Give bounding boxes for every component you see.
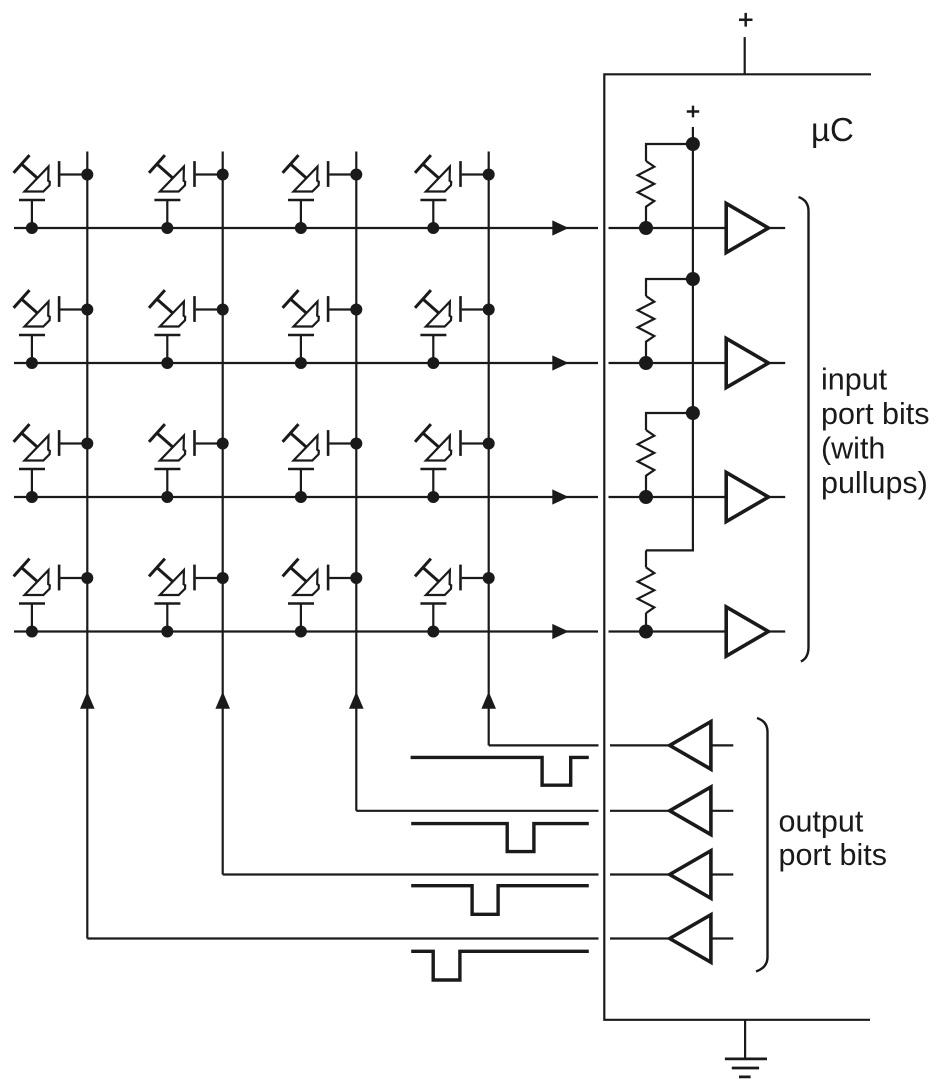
svg-text:(with: (with bbox=[821, 431, 885, 465]
row 3 wire inside uC bbox=[609, 496, 727, 498]
svg-text:pullups): pullups) bbox=[821, 466, 928, 500]
switch S33 bbox=[283, 424, 363, 503]
pullup resistor R2 bbox=[638, 296, 655, 342]
switch S31 bbox=[14, 424, 94, 503]
pullup resistor R4 bbox=[638, 567, 655, 613]
ground symbol bbox=[725, 1059, 767, 1077]
up arrowhead column 4 bbox=[481, 692, 496, 709]
switch S41 bbox=[14, 559, 94, 638]
output buffer 4 bbox=[670, 915, 711, 963]
switch S14 bbox=[415, 155, 495, 234]
svg-text:µC: µC bbox=[811, 111, 854, 148]
switch S13 bbox=[283, 155, 363, 234]
output wire 1 (col4) bbox=[489, 744, 599, 746]
pullup resistor R2 branch bbox=[646, 279, 693, 296]
node dot row 1 bbox=[639, 221, 653, 235]
switch S44 bbox=[415, 559, 495, 638]
switch S21 bbox=[14, 290, 94, 369]
pullup resistor R1 bbox=[638, 161, 655, 207]
node dot row 3 bbox=[639, 490, 653, 504]
output buffer 1 stub bbox=[711, 744, 733, 746]
row 4 wire bbox=[14, 630, 598, 632]
output wire 2 inside uC bbox=[610, 810, 670, 812]
node dot row 4 bbox=[639, 625, 653, 639]
column 3 wire bbox=[355, 152, 357, 811]
switch S11 bbox=[14, 155, 94, 234]
switch S34 bbox=[415, 424, 495, 503]
input port bracket bbox=[799, 197, 809, 662]
R3 bottom lead bbox=[645, 475, 647, 497]
output buffer 2 bbox=[670, 787, 711, 835]
up arrowhead column 1 bbox=[80, 692, 95, 709]
input buffer 2 bbox=[726, 338, 768, 387]
input buffer 4 output stub bbox=[768, 630, 785, 632]
ground stem bbox=[744, 1020, 746, 1058]
row 3 wire bbox=[14, 496, 598, 498]
output wire 3 (col2) bbox=[223, 873, 599, 875]
output buffer 1 bbox=[670, 722, 711, 770]
switch S12 bbox=[149, 155, 229, 234]
switch S42 bbox=[149, 559, 229, 638]
svg-text:output: output bbox=[779, 804, 864, 838]
input buffer 3 output stub bbox=[768, 496, 785, 498]
output wire 1 inside uC bbox=[610, 744, 670, 746]
column 2 wire bbox=[222, 152, 224, 875]
input buffer 1 bbox=[726, 203, 768, 252]
input buffer 1 output stub bbox=[768, 227, 785, 229]
waveform pulse 1 bbox=[411, 757, 589, 785]
output port bracket bbox=[756, 718, 768, 972]
supply rail dot 1 bbox=[686, 137, 700, 151]
row 1 wire inside uC bbox=[609, 227, 727, 229]
switch S22 bbox=[149, 290, 229, 369]
pullup resistor R3 branch bbox=[646, 413, 693, 430]
pullup resistor R1 branch bbox=[646, 144, 693, 161]
up arrowhead column 3 bbox=[349, 692, 364, 709]
switch S43 bbox=[283, 559, 363, 638]
input buffer 2 output stub bbox=[768, 362, 785, 364]
supply rail dot 2 bbox=[686, 272, 700, 286]
R1 bottom lead bbox=[645, 206, 647, 228]
arrowhead row 3 into uC bbox=[552, 489, 568, 504]
waveform pulse 2 bbox=[411, 824, 589, 852]
waveform pulse 3 bbox=[411, 886, 589, 915]
uC box outline (left, top, bottom edges) bbox=[603, 73, 871, 1020]
output buffer 3 stub bbox=[711, 873, 733, 875]
waveform pulse 4 bbox=[411, 951, 589, 980]
row 4 wire inside uC bbox=[609, 630, 727, 632]
output wire 4 (col1) bbox=[87, 937, 598, 939]
row 1 wire (left matrix section) bbox=[14, 227, 598, 229]
svg-text:input: input bbox=[821, 362, 888, 396]
switch S24 bbox=[415, 290, 495, 369]
svg-text:port bits: port bits bbox=[821, 397, 930, 431]
supply lead into uC top bbox=[744, 37, 746, 74]
supply rail dot 3 bbox=[686, 406, 700, 420]
output wire 2 (col3) bbox=[356, 810, 598, 812]
output buffer 2 stub bbox=[711, 810, 733, 812]
R2 bottom lead bbox=[645, 341, 647, 363]
row 2 wire inside uC bbox=[609, 362, 727, 364]
output buffer 4 stub bbox=[711, 937, 733, 939]
column 4 wire bbox=[488, 152, 490, 746]
arrowhead row 2 into uC bbox=[552, 355, 568, 370]
pullup resistor R4 lead bbox=[645, 550, 647, 567]
up arrowhead column 2 bbox=[215, 692, 230, 709]
arrowhead row 1 into uC bbox=[552, 220, 568, 235]
output wire 4 inside uC bbox=[610, 937, 670, 939]
input buffer 3 bbox=[726, 472, 768, 521]
node dot row 2 bbox=[639, 356, 653, 370]
column 1 wire bbox=[86, 152, 88, 939]
switch S32 bbox=[149, 424, 229, 503]
svg-text:port bits: port bits bbox=[779, 838, 888, 872]
input buffer 4 bbox=[726, 607, 768, 656]
row 2 wire bbox=[14, 362, 598, 364]
pullup supply rail bbox=[646, 127, 693, 550]
pullup resistor R3 bbox=[638, 430, 655, 476]
output wire 3 inside uC bbox=[610, 873, 670, 875]
internal pullup + symbol bbox=[687, 106, 699, 118]
output buffer 3 bbox=[670, 851, 711, 899]
supply + symbol (top) bbox=[739, 13, 753, 27]
arrowhead row 4 into uC bbox=[552, 624, 568, 639]
switch S23 bbox=[283, 290, 363, 369]
R4 bottom lead bbox=[645, 613, 647, 632]
